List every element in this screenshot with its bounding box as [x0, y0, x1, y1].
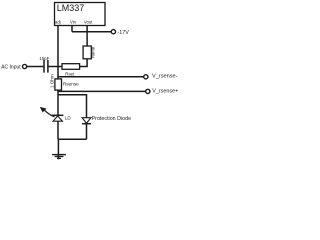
svg-text:Protection Diode: Protection Diode: [92, 116, 132, 122]
svg-text:AC Input: AC Input: [1, 64, 21, 70]
svg-text:15pF: 15pF: [39, 56, 49, 61]
svg-text:V_rsense+: V_rsense+: [152, 88, 178, 94]
svg-text:V_rsense-: V_rsense-: [152, 74, 178, 80]
svg-text:Rsense: Rsense: [63, 82, 79, 87]
svg-text:1 Ohm: 1 Ohm: [49, 74, 54, 88]
svg-text:LD: LD: [65, 115, 72, 120]
svg-text:Vin: Vin: [70, 20, 77, 25]
svg-text:Rset: Rset: [65, 71, 75, 76]
svg-text:Vout: Vout: [84, 20, 93, 25]
svg-text:Rlimit: Rlimit: [91, 46, 96, 58]
svg-text:LM337: LM337: [57, 3, 85, 13]
svg-text:-17V: -17V: [118, 30, 130, 36]
svg-text:adj: adj: [55, 20, 61, 25]
